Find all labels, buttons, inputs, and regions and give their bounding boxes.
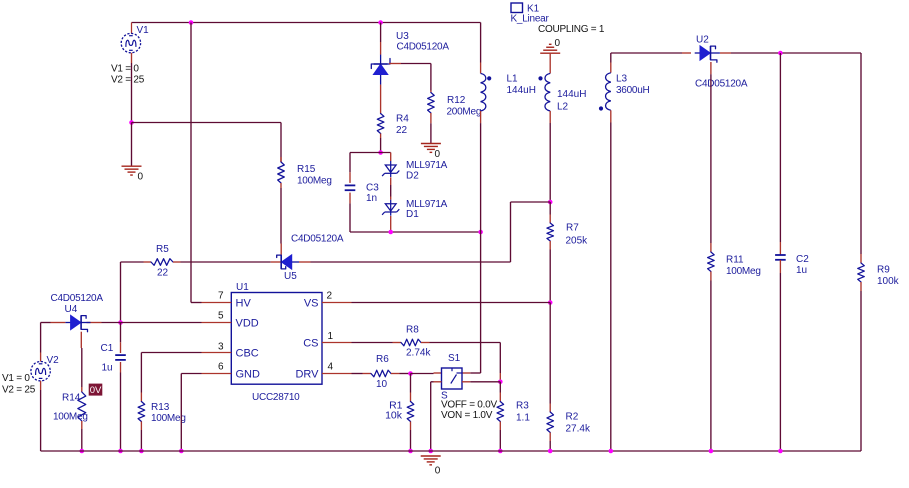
svg-text:100Meg: 100Meg [297,176,332,187]
svg-text:27.4k: 27.4k [566,424,591,435]
label R8 [406,325,419,336]
svg-text:100Meg: 100Meg [151,413,186,424]
pin L2 bottom [549,111,551,123]
capacitor C1 [115,342,126,372]
wire V1 node to R15 [132,122,282,124]
node junction V1 bottom [129,120,134,125]
pin 4 DRV stub [322,373,352,375]
wire top rail corner to L1 [480,23,482,63]
wire top rail to HV pin [190,23,192,303]
pin U2 cathode down [710,62,712,74]
label V2 = 25 (V1 source) [111,75,145,86]
resistor R3 [497,393,504,431]
resistor R4 [377,114,384,139]
node junction GND bottom [179,449,184,454]
wire CS corner down [499,343,501,374]
svg-text:U2: U2 [696,35,709,46]
wire U4 red to maroon [102,322,121,324]
svg-text:R4: R4 [396,114,409,125]
label K1 [527,4,540,15]
node junction S1 lower right [498,380,503,385]
svg-text:VON = 1.0V: VON = 1.0V [441,410,493,421]
pin U3 cathode up [380,42,382,55]
svg-text:C1: C1 [101,343,114,354]
svg-text:0: 0 [138,172,144,183]
label U5 [284,271,297,282]
node junction VDD [118,320,123,325]
svg-text:D1: D1 [406,209,419,220]
svg-text:V1 = 0: V1 = 0 [2,373,30,384]
wire VS node to R2 [549,303,551,404]
label VDD [236,318,259,330]
label 100k R9 [877,276,900,287]
label COUPLING = 1 [538,24,605,35]
wire C2 to bottom rail [779,273,781,451]
svg-text:0: 0 [555,38,561,49]
resistor R6 [363,370,400,377]
wire VDD node to pin [121,322,202,324]
diode U4 C4D05120A [65,315,90,331]
label 22 R4 [396,125,408,136]
switch S1 box [442,368,463,389]
label 1n C3 [366,193,377,204]
label CBC [236,348,259,360]
wire R15 to U5 cathode [280,188,282,244]
label VS [304,298,319,310]
label DRV [295,369,319,381]
label pin 1 [328,331,334,342]
wire S1 ctl to corner [431,381,434,383]
wire bottom rail [41,450,861,452]
label U4 [65,304,78,315]
label 0 ground L2 [555,38,561,49]
wire R15 top [280,123,282,163]
wire top rail to U3 [380,23,382,43]
label R4 [396,114,409,125]
capacitor C3 [345,172,356,203]
ground 0 below R12 [421,144,441,153]
svg-text:1n: 1n [366,193,377,204]
label R1 [389,400,403,412]
wire to R14 [81,348,83,387]
svg-text:2: 2 [327,291,333,302]
label pin 5 [218,311,224,322]
diode D1 MLL971A [382,200,399,216]
svg-text:GND: GND [236,369,261,381]
diode D2 MLL971A [382,161,399,177]
pin U4 cathode down [80,332,82,348]
node junction L2 bottom [548,200,553,205]
node junction S1 ctl bottom [428,449,433,454]
label C4D05120A U3 [397,42,450,53]
wire R3 to bottom rail [499,430,501,451]
ground 0 bottom [421,456,441,465]
label S [441,391,448,402]
label pin 4 [328,362,334,373]
label 100Meg R11 [726,266,761,277]
svg-text:100Meg: 100Meg [726,266,761,277]
label 3600uH L3 [616,85,650,96]
label K_Linear [511,14,550,25]
wire S1 ctl down [430,382,432,451]
svg-text:V2 = 25: V2 = 25 [2,385,36,396]
svg-text:CBC: CBC [236,348,259,360]
node junction R3 bottom [498,449,503,454]
svg-text:1u: 1u [796,265,807,276]
wire output rail left [611,52,682,54]
label 0 ground bottom [435,466,441,477]
svg-text:MLL971A: MLL971A [406,160,448,171]
wire CS to R8 [352,342,393,344]
wire R6 to junction [400,373,411,375]
node junction C1 bottom [118,449,123,454]
svg-text:1u: 1u [102,363,113,374]
wire R13 to bottom rail [140,430,142,451]
label 1u C1 [102,363,113,374]
svg-text:100Meg: 100Meg [53,412,88,423]
svg-text:R8: R8 [406,325,419,336]
label VOFF = 0.0V [441,400,497,411]
pin U2 cathode right [720,52,731,54]
resistor R13 [138,393,145,431]
pin U5 anode right [299,261,311,263]
label L1 [507,74,519,85]
label C3 [366,183,379,194]
resistor R9 [858,254,865,291]
svg-text:R9: R9 [877,265,890,276]
svg-text:VDD: VDD [236,318,259,330]
wire R5 to U5 [181,261,271,263]
label R15 [297,164,316,175]
node junction L3 bottom [609,449,614,454]
label VON = 1.0V [441,410,493,421]
label 1u C2 [796,265,807,276]
svg-text:UCC28710: UCC28710 [252,392,300,403]
resistor R14 [78,387,86,429]
diode U2 C4D05120A [695,46,720,62]
wire R8 to corner [430,342,501,344]
svg-text:10: 10 [376,379,388,390]
wire U2 to R11 [710,74,712,243]
resistor R2 [547,404,554,442]
pin V2 top [40,353,42,362]
svg-text:C4D05120A: C4D05120A [397,42,450,53]
svg-text:COUPLING = 1: COUPLING = 1 [538,24,605,35]
label 200Meg R12 [447,107,482,118]
label 27.4k R2 [566,424,591,435]
node junction VS [548,300,553,305]
label 10 R6 [376,379,388,390]
svg-text:22: 22 [157,268,169,279]
svg-text:C3: C3 [366,183,379,194]
svg-text:CS: CS [303,338,318,350]
pin S1 lower right [462,381,470,383]
label MLL971A D1 [406,199,448,210]
label V2 [47,355,60,366]
wire R12 to ground [430,123,432,143]
wire to S1 upper right [470,372,480,374]
wire R2 to bottom rail [549,441,551,451]
voltage source V2 [31,362,50,381]
pin S1 upper left [434,372,442,374]
wire R9 to bottom rail [860,291,862,451]
node junction R13 bottom [139,449,144,454]
svg-text:V1: V1 [137,25,150,36]
pin into S1 lower junction [499,373,501,382]
label V1 = 0 (V2 source) [2,373,30,384]
svg-text:C4D05120A: C4D05120A [291,234,344,245]
inductor L2 [538,73,550,111]
label pin 2 [327,291,333,302]
svg-text:1: 1 [328,331,334,342]
wire D2 to D1 b [390,185,392,197]
diode U5 C4D05120A [277,255,299,269]
resistor R15 [278,157,285,188]
svg-text:144uH: 144uH [507,85,536,96]
label C4D05120A U5 [291,234,344,245]
svg-text:L2: L2 [557,102,569,113]
pin L1 bottom [480,111,482,123]
label U2 [696,35,709,46]
label C4D05120A U4 [51,293,104,304]
label 10k R1 [385,410,403,422]
svg-text:V2: V2 [47,355,60,366]
resistor R5 [144,259,181,266]
wire into HV pin [191,302,202,304]
pin U4 anode left [51,322,66,324]
wire CBC [141,352,201,354]
label U1 [236,282,249,293]
wire R1 top [410,374,412,393]
label 100Meg R13 [151,413,186,424]
svg-text:DRV: DRV [295,369,319,381]
wire R14 to bottom rail [81,429,83,451]
wire V1 node to ground stub [131,123,133,167]
svg-text:0V: 0V [90,385,102,396]
label UCC28710 [252,392,300,403]
pin 6 GND stub [202,373,232,375]
wire snubber left down [349,153,351,173]
node junction top rail at U3 [378,20,383,25]
svg-text:22: 22 [396,125,408,136]
label D2 [406,171,419,182]
label R13 [151,402,170,413]
pin 5 VDD stub [202,322,232,324]
ground 0 below V1 [122,166,142,175]
wire L1 node down to S1 [480,232,482,373]
wire R1 to bottom rail [410,430,412,451]
inductor L1 [481,73,492,111]
svg-text:HV: HV [236,298,252,310]
wire VS to divider [352,302,551,304]
node junction C2 bottom [778,449,783,454]
label C2 [796,254,809,265]
label R14 [62,393,81,404]
wire snubber right down stub [390,153,392,162]
wire D2 to D1 c [390,197,392,200]
svg-text:10k: 10k [385,410,403,422]
voltage source V1 [121,23,140,53]
wire R9 top [860,53,862,254]
svg-text:5: 5 [218,311,224,322]
label 0 ground V1 [138,172,144,183]
svg-text:100k: 100k [877,276,900,287]
wire GND pin left [181,373,201,375]
label 144uH L2 [557,89,586,100]
wire top primary rail [132,22,481,24]
wire L3 top corner [610,53,612,63]
svg-text:R6: R6 [376,354,389,365]
node junction R11 bottom [709,449,714,454]
pin L3 top [610,63,612,73]
pin 3 CBC stub [202,352,232,354]
wire C2 top [779,53,781,242]
svg-text:K_Linear: K_Linear [511,14,550,25]
svg-text:U1: U1 [236,282,249,293]
svg-text:U4: U4 [65,304,78,315]
node junction output at C2 [778,51,783,56]
svg-text:R12: R12 [447,95,466,106]
wire R7 to VS node [549,250,551,303]
label R3 [516,401,529,412]
label pin 3 [218,342,224,353]
label V2 = 25 (V2 source) [2,385,36,396]
label R6 [376,354,389,365]
pin V2 bottom [40,381,42,390]
svg-text:R11: R11 [726,255,744,266]
wire D1 to snubber bottom [390,216,392,232]
capacitor C2 [775,242,786,273]
label R7 [566,223,579,234]
wire S1 lower right to junction [470,381,500,383]
svg-text:U3: U3 [396,31,409,42]
wire V1 to lower node [131,63,133,123]
wire R12 corner v [430,64,432,91]
svg-text:200Meg: 200Meg [447,107,482,118]
inductor L3 [599,73,611,111]
pin S1 upper right [462,372,470,374]
wire VDD node down [120,323,122,343]
wire D2 to D1 a [390,177,392,185]
svg-text:0: 0 [435,466,441,477]
wire U4 cathode to VDD node [87,322,102,324]
resistor R12 [428,91,435,124]
label 144uH L1 [507,85,536,96]
svg-text:6: 6 [218,362,224,373]
svg-text:0: 0 [435,149,441,160]
svg-text:144uH: 144uH [557,89,586,100]
node junction bottom L2 column [548,449,553,454]
label L2 [557,102,569,113]
label R5 [156,244,169,255]
label 205k R7 [566,236,589,247]
wire snubber bottom [350,231,481,233]
svg-text:L3: L3 [616,74,628,85]
resistor R7 [547,215,554,250]
label R12 [447,95,466,106]
pin U5 cathode left [271,261,282,263]
svg-text:U5: U5 [284,271,297,282]
svg-text:L1: L1 [507,74,519,85]
wire V2 to bottom rail [40,390,42,451]
wire V1 bottom pin [131,53,133,63]
svg-text:7: 7 [218,291,224,302]
wire DRV to R6 [352,373,363,375]
node junction snubber bottom at D1 [388,230,393,235]
label D1 [406,209,419,220]
pin L1 top [480,63,482,74]
wire V2 column top [40,323,42,353]
svg-text:R14: R14 [62,393,81,404]
label HV [236,298,252,310]
svg-text:VS: VS [304,298,319,310]
pin U3 anode down [380,85,382,114]
wire VDD node up [120,262,122,323]
resistor R1 [407,393,414,431]
label C4D05120A U2 [695,79,748,90]
wire output rail right [731,52,861,54]
wire R4 to snubber node [380,138,382,153]
svg-text:R7: R7 [566,223,579,234]
wire junction to R3 [499,382,501,393]
op-amp U1 UCC28710 box [231,293,322,385]
wire GND down [180,374,182,452]
svg-text:1.1: 1.1 [516,413,530,424]
svg-text:4: 4 [328,362,334,373]
label MLL971A D2 [406,160,448,171]
wire L2 node to R7 [549,202,551,215]
wire snubber top [350,152,391,154]
pin S1 lower left [434,381,442,383]
label GND [236,369,261,381]
diode U3 C4D05120A [371,55,390,85]
pin 2 VS stub [322,302,352,304]
label U3 [396,31,409,42]
label V1 = 0 (V1 source) [111,64,139,75]
ground 0 above L2 (flipped) [540,44,560,53]
svg-text:C2: C2 [796,254,809,265]
wire U5 to secondary link [311,261,511,263]
wire C1 to bottom rail [120,373,122,452]
wire L2 bottom to node [549,123,551,202]
node junction snubber top [378,150,383,155]
node junction snubber bottom at L1 [478,230,483,235]
label 0 ground R12 [435,149,441,160]
wire down to U5 row [510,202,512,262]
svg-text:D2: D2 [406,171,419,182]
coupling K1 square [511,3,523,13]
label R11 [726,255,744,266]
label pin 7 [218,291,224,302]
wire R5 left [121,261,144,263]
svg-text:205k: 205k [566,236,589,247]
pin U2 anode [682,52,691,54]
node junction R1 bottom [408,449,413,454]
bias label 0V [89,384,103,397]
svg-text:C4D05120A: C4D05120A [695,79,748,90]
pin U3 cathode right [389,63,401,65]
label 22 R5 [157,268,169,279]
node junction DRV [408,371,413,376]
label pin 6 [218,362,224,373]
node junction top rail at HV column [189,20,194,25]
label R9 [877,265,890,276]
svg-text:R5: R5 [156,244,169,255]
svg-text:V1 = 0: V1 = 0 [111,64,139,75]
svg-text:R3: R3 [516,401,529,412]
wire L3 to bottom rail [610,123,612,452]
label R2 [566,412,579,423]
